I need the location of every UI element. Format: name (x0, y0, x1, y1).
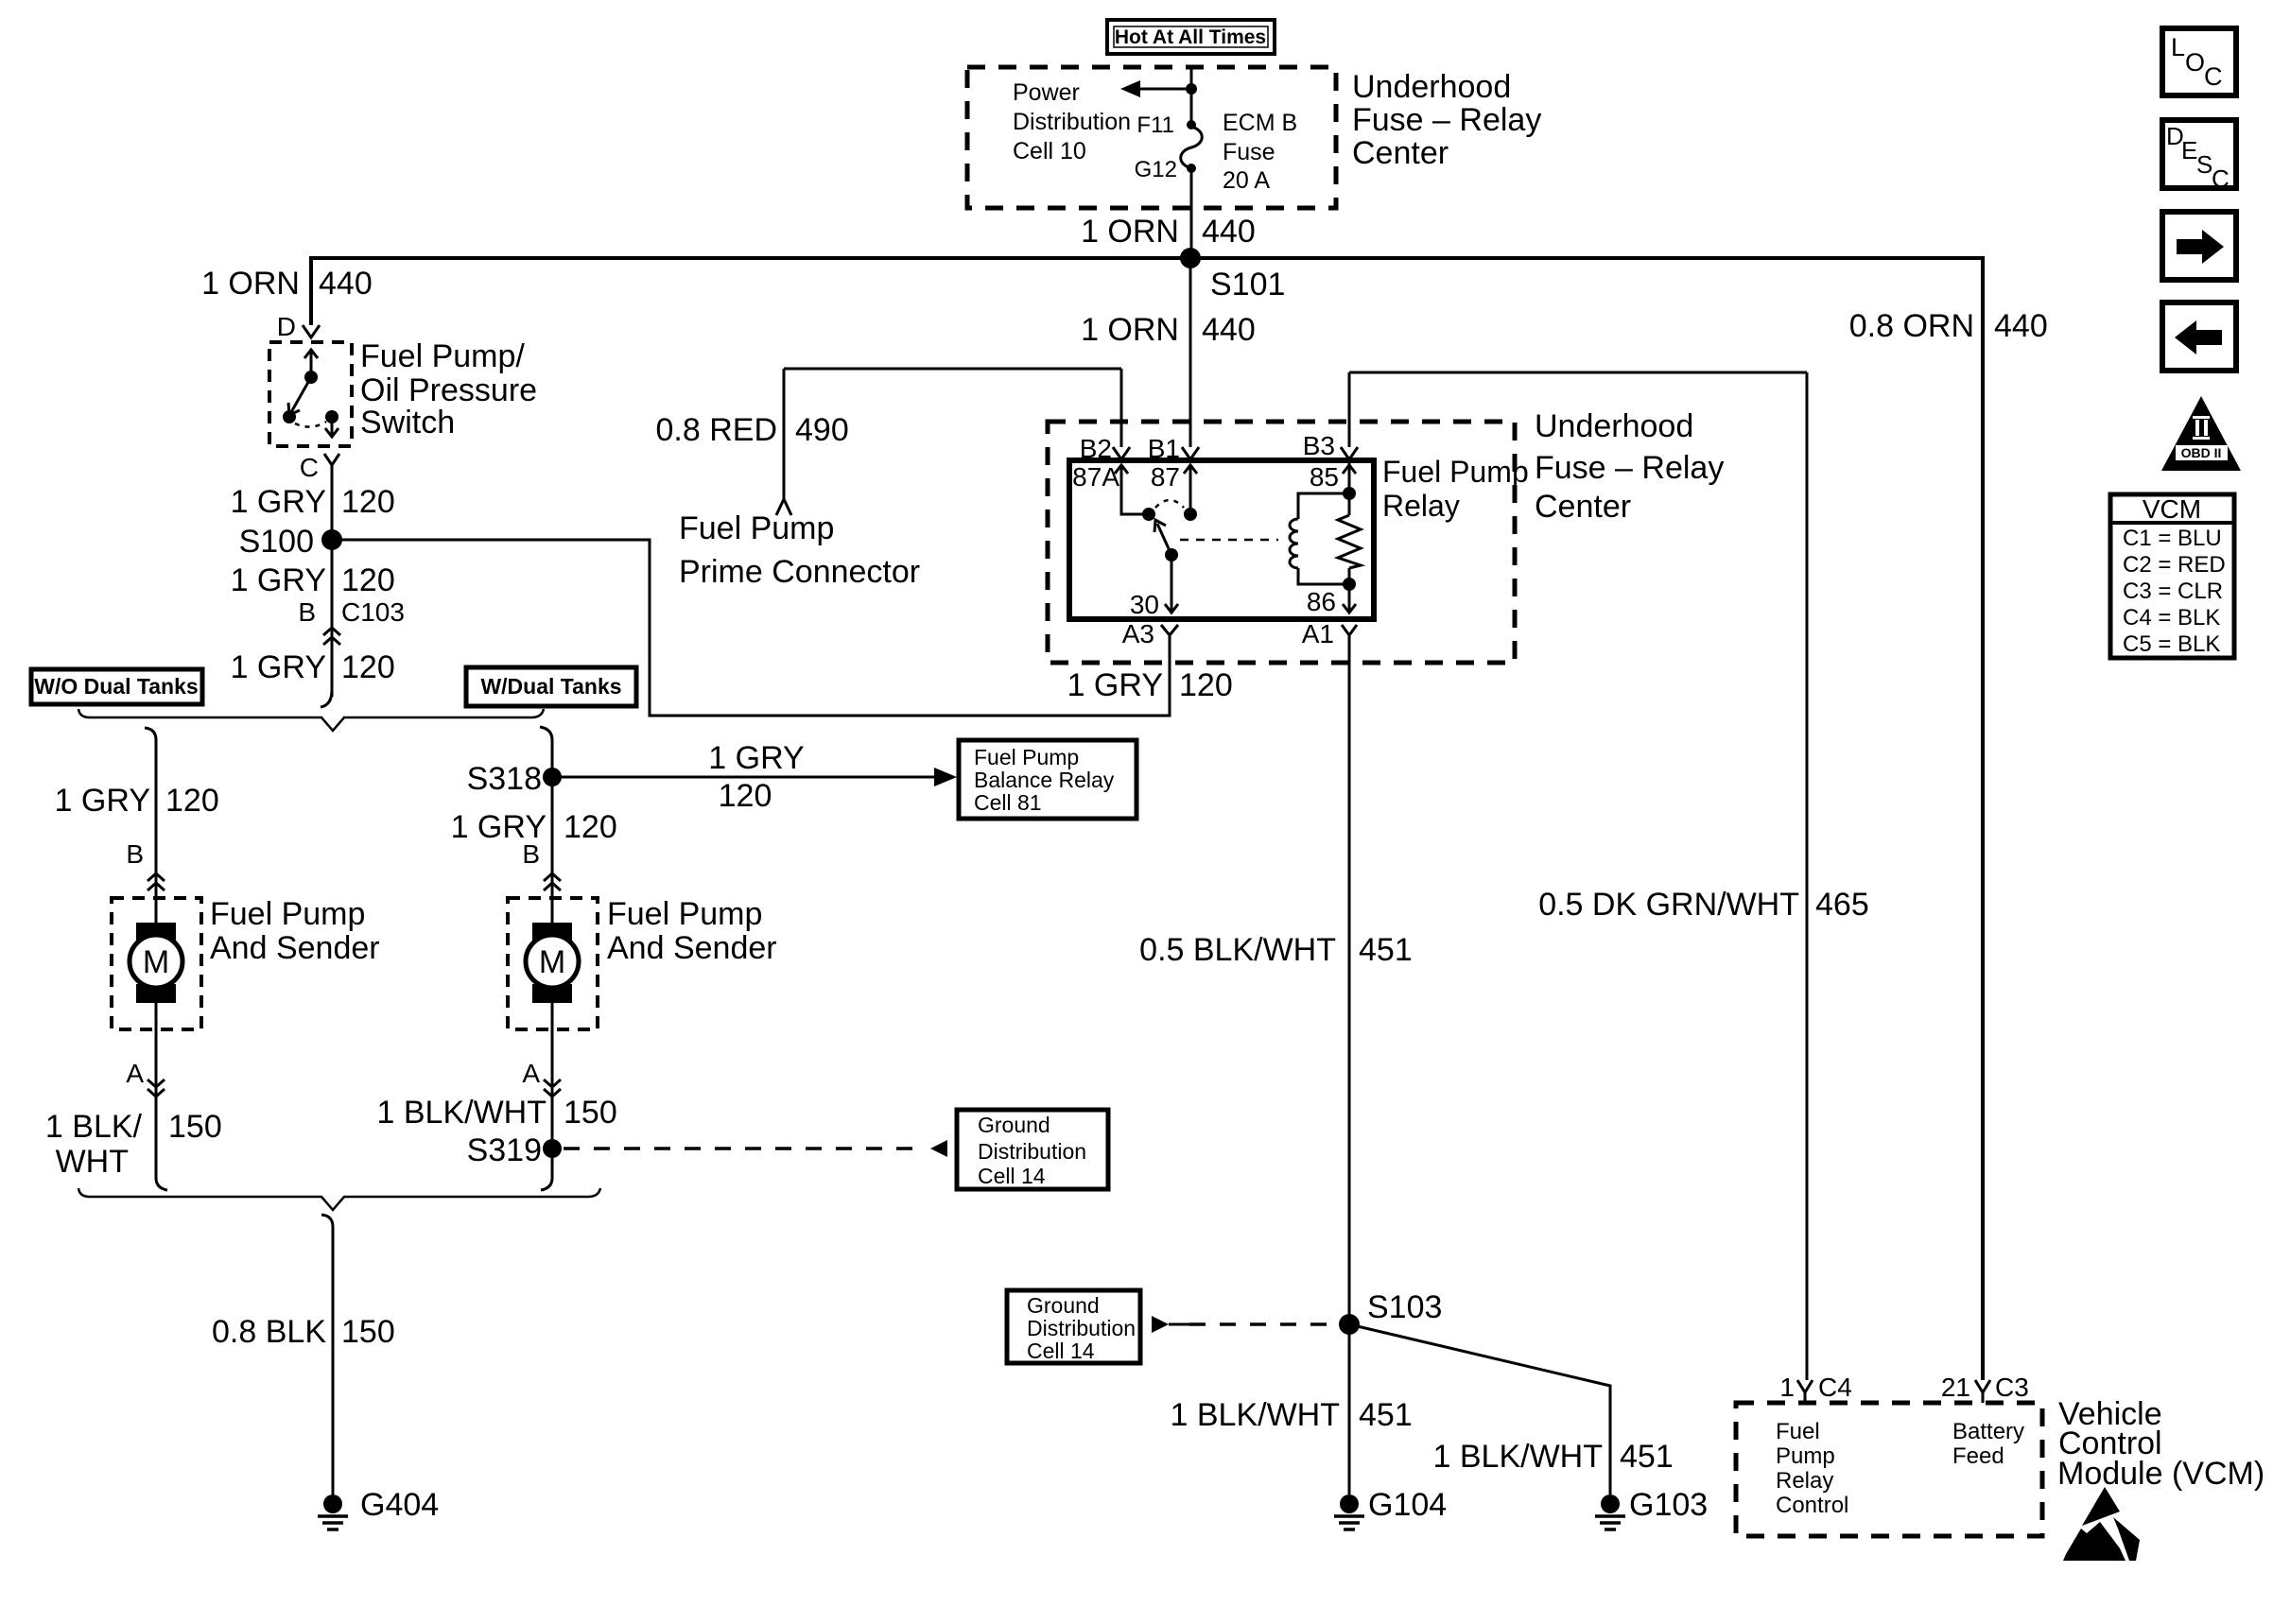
svg-text:C5 = BLK: C5 = BLK (2123, 631, 2220, 657)
svg-text:0.8 BLK: 0.8 BLK (212, 1314, 326, 1350)
svg-text:Cell 14: Cell 14 (978, 1164, 1046, 1188)
svg-text:440: 440 (1994, 308, 2048, 344)
svg-text:150: 150 (564, 1095, 617, 1131)
svg-text:Relay: Relay (1382, 489, 1460, 523)
svg-text:D: D (277, 312, 296, 341)
svg-text:1 BLK/: 1 BLK/ (45, 1109, 143, 1145)
svg-text:B: B (522, 839, 540, 869)
svg-text:A3: A3 (1122, 619, 1154, 648)
svg-text:21: 21 (1941, 1373, 1970, 1402)
svg-text:86: 86 (1307, 587, 1336, 616)
svg-text:Module (VCM): Module (VCM) (2057, 1456, 2264, 1492)
svg-text:120: 120 (341, 562, 395, 598)
svg-text:490: 490 (795, 412, 849, 448)
svg-text:Battery: Battery (1952, 1419, 2024, 1444)
svg-text:120: 120 (719, 778, 772, 814)
svg-text:Fuel Pump: Fuel Pump (679, 510, 834, 546)
svg-text:S: S (2196, 150, 2212, 179)
svg-text:120: 120 (1179, 667, 1233, 703)
svg-text:30: 30 (1130, 590, 1159, 619)
svg-text:0.5 DK GRN/WHT: 0.5 DK GRN/WHT (1538, 887, 1799, 923)
svg-text:150: 150 (341, 1314, 395, 1350)
svg-text:87A: 87A (1072, 462, 1119, 492)
svg-text:C4: C4 (1818, 1373, 1852, 1402)
svg-text:W/O Dual Tanks: W/O Dual Tanks (34, 674, 198, 699)
svg-text:451: 451 (1359, 1397, 1413, 1433)
svg-text:B1: B1 (1148, 434, 1180, 463)
svg-text:Hot At All Times: Hot At All Times (1115, 26, 1266, 48)
svg-text:Cell 10: Cell 10 (1013, 138, 1086, 164)
svg-text:20 A: 20 A (1223, 167, 1270, 194)
svg-text:Feed: Feed (1952, 1443, 2004, 1469)
svg-text:Fuse: Fuse (1223, 139, 1275, 165)
svg-text:Fuel Pump: Fuel Pump (607, 896, 762, 932)
svg-text:Cell 14: Cell 14 (1027, 1339, 1095, 1363)
svg-text:W/Dual Tanks: W/Dual Tanks (480, 674, 621, 699)
svg-text:Fuel Pump: Fuel Pump (210, 896, 365, 932)
svg-text:C3: C3 (1995, 1373, 2029, 1402)
svg-text:VCM: VCM (2143, 494, 2201, 524)
svg-text:M: M (143, 944, 169, 980)
svg-text:451: 451 (1359, 932, 1413, 968)
svg-text:O: O (2185, 48, 2205, 77)
svg-text:1 GRY: 1 GRY (708, 740, 804, 776)
svg-text:Distribution: Distribution (1027, 1316, 1136, 1340)
svg-text:Fuse – Relay: Fuse – Relay (1535, 450, 1724, 486)
svg-text:1 GRY: 1 GRY (55, 783, 150, 819)
svg-text:120: 120 (341, 484, 395, 520)
svg-text:ECM B: ECM B (1223, 110, 1297, 136)
svg-text:Switch: Switch (360, 405, 455, 441)
svg-text:S319: S319 (467, 1132, 542, 1168)
svg-text:Prime Connector: Prime Connector (679, 554, 920, 590)
svg-text:C103: C103 (341, 597, 405, 627)
svg-text:C3 = CLR: C3 = CLR (2123, 579, 2223, 604)
svg-text:Fuse – Relay: Fuse – Relay (1352, 102, 1541, 138)
svg-text:And Sender: And Sender (210, 930, 380, 966)
svg-text:87: 87 (1151, 462, 1180, 492)
svg-text:B: B (126, 839, 144, 869)
svg-text:G404: G404 (360, 1487, 439, 1523)
svg-text:B: B (298, 597, 316, 627)
svg-text:Center: Center (1352, 135, 1449, 171)
svg-text:440: 440 (319, 266, 373, 302)
svg-text:150: 150 (168, 1109, 222, 1145)
svg-text:G104: G104 (1368, 1487, 1447, 1523)
svg-text:Balance Relay: Balance Relay (974, 768, 1115, 792)
svg-text:C2 = RED: C2 = RED (2123, 552, 2226, 578)
svg-text:1 ORN: 1 ORN (201, 266, 300, 302)
svg-text:Fuel Pump: Fuel Pump (1382, 455, 1529, 489)
svg-text:Center: Center (1535, 489, 1631, 525)
svg-text:S101: S101 (1210, 267, 1285, 302)
svg-text:1 BLK/WHT: 1 BLK/WHT (377, 1095, 547, 1131)
svg-text:C: C (300, 453, 319, 482)
svg-text:465: 465 (1815, 887, 1869, 923)
svg-text:WHT: WHT (56, 1144, 129, 1180)
svg-text:M: M (539, 944, 565, 980)
svg-text:Power: Power (1013, 79, 1080, 106)
svg-text:1 ORN: 1 ORN (1081, 312, 1179, 348)
svg-text:Fuel Pump/: Fuel Pump/ (360, 338, 525, 374)
svg-text:440: 440 (1202, 214, 1256, 250)
svg-text:Oil Pressure: Oil Pressure (360, 372, 537, 408)
svg-text:Fuel Pump: Fuel Pump (974, 745, 1079, 769)
svg-text:85: 85 (1310, 462, 1339, 492)
svg-text:A1: A1 (1302, 619, 1334, 648)
svg-text:Underhood: Underhood (1352, 69, 1511, 105)
svg-text:1 ORN: 1 ORN (1081, 214, 1179, 250)
svg-text:B2: B2 (1080, 434, 1112, 463)
svg-text:440: 440 (1202, 312, 1256, 348)
svg-text:Underhood: Underhood (1535, 408, 1693, 444)
svg-text:S318: S318 (467, 761, 542, 797)
svg-text:F11: F11 (1136, 112, 1174, 138)
svg-text:A: A (126, 1059, 144, 1088)
svg-text:1 BLK/WHT: 1 BLK/WHT (1433, 1439, 1603, 1475)
svg-text:C: C (2204, 62, 2223, 91)
svg-text:OBD II: OBD II (2181, 445, 2222, 460)
svg-text:C1 = BLU: C1 = BLU (2123, 526, 2222, 551)
svg-text:A: A (522, 1059, 540, 1088)
svg-text:Pump: Pump (1776, 1443, 1835, 1469)
svg-text:451: 451 (1620, 1439, 1674, 1475)
svg-text:Distribution: Distribution (1013, 109, 1131, 135)
svg-text:1: 1 (1779, 1373, 1795, 1402)
svg-text:1 GRY: 1 GRY (1067, 667, 1163, 703)
svg-text:G12: G12 (1135, 157, 1177, 182)
svg-text:And Sender: And Sender (607, 930, 777, 966)
svg-text:Cell 81: Cell 81 (974, 790, 1042, 815)
svg-text:E: E (2181, 136, 2197, 164)
svg-text:L: L (2171, 33, 2185, 61)
svg-text:G103: G103 (1629, 1487, 1708, 1523)
svg-text:Distribution: Distribution (978, 1139, 1086, 1164)
svg-text:S103: S103 (1367, 1289, 1442, 1325)
svg-text:1 GRY: 1 GRY (231, 649, 326, 685)
svg-text:Relay: Relay (1776, 1468, 1833, 1494)
svg-text:Ground: Ground (978, 1113, 1050, 1137)
svg-text:C: C (2212, 164, 2230, 193)
svg-text:Fuel: Fuel (1776, 1419, 1820, 1444)
svg-text:120: 120 (165, 783, 219, 819)
svg-text:Ground: Ground (1027, 1293, 1100, 1318)
svg-text:1 GRY: 1 GRY (231, 562, 326, 598)
svg-text:B3: B3 (1303, 431, 1335, 460)
svg-text:120: 120 (564, 809, 617, 845)
svg-text:Control: Control (1776, 1493, 1848, 1518)
svg-text:C4 = BLK: C4 = BLK (2123, 605, 2220, 631)
svg-text:0.5 BLK/WHT: 0.5 BLK/WHT (1139, 932, 1336, 968)
svg-text:0.8 ORN: 0.8 ORN (1849, 308, 1974, 344)
svg-text:S100: S100 (239, 524, 314, 560)
svg-text:120: 120 (341, 649, 395, 685)
svg-text:1 GRY: 1 GRY (231, 484, 326, 520)
svg-text:1 BLK/WHT: 1 BLK/WHT (1171, 1397, 1340, 1433)
svg-text:0.8 RED: 0.8 RED (656, 412, 778, 448)
